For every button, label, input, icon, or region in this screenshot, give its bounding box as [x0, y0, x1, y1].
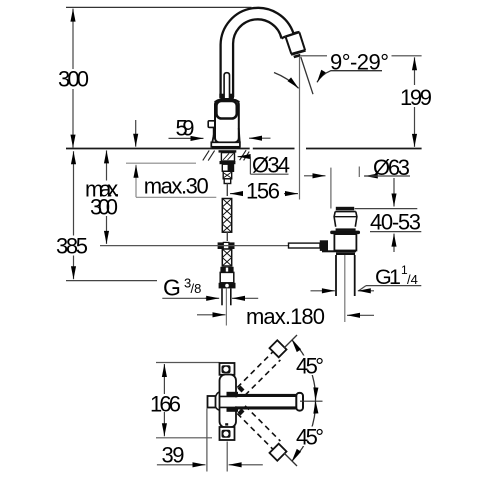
svg-text:40-53: 40-53	[370, 210, 421, 235]
39 extension lines	[207, 409, 227, 472]
angle arc left with arrow	[274, 73, 299, 89]
body shoulder	[215, 99, 239, 102]
lower arm end cap	[270, 444, 287, 461]
svg-text:Ø34: Ø34	[252, 153, 290, 178]
pop-up rod coupling	[218, 242, 235, 249]
max.30 extension line	[126, 162, 196, 164]
block under nut	[222, 164, 233, 171]
drain Ø63 extension lines	[331, 167, 359, 209]
deck line (mounting surface)	[66, 148, 422, 150]
lever handle	[208, 121, 216, 136]
svg-text:166: 166	[150, 391, 181, 416]
top extension line (300 reference at spout top)	[66, 6, 252, 8]
svg-text:39: 39	[162, 442, 185, 467]
hatched block	[223, 171, 232, 183]
svg-text:/4: /4	[407, 272, 418, 287]
hose nut	[220, 267, 233, 273]
40-53 underline	[370, 231, 421, 233]
leader Ø34 arrow	[238, 156, 251, 158]
dimension 199 vertical line with arrows	[414, 57, 416, 147]
deck hatching left of hole	[203, 150, 215, 160]
svg-text:199: 199	[400, 85, 432, 110]
upper 45 arc with arrows	[292, 340, 315, 400]
svg-text:385: 385	[56, 234, 88, 259]
G 3/8 arrows	[205, 297, 258, 299]
base plate bottom bar	[212, 147, 240, 149]
arm center line	[300, 400, 323, 402]
drain plug cap	[336, 207, 354, 211]
deck hatching right of hole	[240, 150, 250, 160]
G3/8 pipe	[222, 288, 231, 305]
label max. 300	[85, 177, 120, 220]
max.30 underline	[136, 196, 216, 198]
upper arm axis line	[284, 335, 297, 348]
horizontal pop-up rod	[100, 245, 288, 247]
drain body bottom bars	[322, 250, 356, 255]
mounting nut black bar	[220, 161, 236, 164]
supply hose with X hatch	[222, 249, 231, 266]
G1 1/4 leader diagonal	[359, 286, 366, 291]
dimension 166 line with arrows	[163, 364, 165, 436]
dimension 156 arrows	[230, 193, 298, 195]
joint blobs tube to body	[219, 94, 234, 99]
dimension 59 arrows	[169, 137, 271, 139]
166 extension lines	[156, 363, 220, 438]
supply axis line	[225, 288, 227, 325]
Ø63 underline	[364, 175, 410, 177]
connector block	[220, 272, 234, 282]
pop-up lift rod above body	[224, 73, 229, 99]
angle arc right with arrow	[317, 71, 331, 83]
drain washer	[330, 228, 360, 234]
label 45 lower	[294, 424, 327, 449]
G1 1/4 underline	[366, 285, 421, 287]
tick above bottom tab	[225, 423, 228, 425]
upper diagonal arm dashed	[237, 352, 280, 395]
bracket body	[220, 375, 237, 428]
upper arm end cap	[270, 340, 287, 357]
svg-text:max.180: max.180	[246, 304, 325, 329]
svg-text:/8: /8	[191, 281, 202, 296]
spout head band	[285, 32, 299, 37]
svg-text:45°: 45°	[296, 424, 324, 449]
svg-text:156: 156	[246, 179, 280, 204]
extension line spout outlet height	[301, 55, 422, 57]
drain body	[334, 234, 356, 250]
drain tailpipe	[336, 255, 355, 296]
G1 1/4 arrows	[311, 290, 375, 292]
shank block with hatch	[221, 153, 234, 161]
svg-text:9°-29°: 9°-29°	[330, 49, 389, 74]
threaded supply pipe with X hatch	[222, 199, 231, 233]
dimension max.300 line with arrows	[106, 150, 108, 244]
svg-text:59: 59	[176, 115, 195, 140]
handle face window	[216, 101, 236, 119]
svg-text:max.30: max.30	[144, 174, 209, 199]
arm end cap	[296, 393, 303, 411]
gooseneck spout outer+inner arc	[221, 8, 300, 97]
40-53 lower arrow	[393, 234, 395, 252]
pop-up rod outlined section	[289, 243, 321, 248]
body flare sides	[212, 128, 239, 142]
connector flange bar	[219, 283, 236, 289]
dimension 300 vertical line with arrows	[72, 9, 74, 148]
shank flange washer under deck	[219, 150, 237, 152]
label G 3/8	[163, 274, 201, 300]
dimension 385 line with arrows	[73, 151, 75, 279]
base plate	[211, 142, 240, 147]
arm passage through hub	[220, 396, 239, 407]
Ø34 underline	[250, 173, 288, 175]
label G1 1/4	[375, 263, 418, 289]
svg-text:300: 300	[58, 67, 89, 92]
40-53 upper arrow	[393, 178, 395, 207]
svg-text:300: 300	[90, 195, 118, 220]
faucet body outline	[215, 100, 239, 143]
lower arm axis line	[284, 453, 297, 466]
thin lift rod segment	[226, 184, 228, 197]
bracket top screw tab	[220, 363, 235, 375]
hub left protrusion	[208, 392, 220, 410]
leader Ø34 vertical	[249, 157, 251, 175]
tick below top tab	[225, 376, 228, 378]
aerator outlet	[293, 54, 301, 58]
svg-text:Ø63: Ø63	[373, 155, 410, 180]
dimension 39 arrows	[157, 464, 263, 466]
lower diagonal arm dashed	[237, 406, 280, 449]
dimension max.30 lower arrow	[135, 165, 137, 197]
dimension max.30 upper arrow	[135, 120, 137, 147]
lower 45 arc with arrows	[292, 401, 315, 461]
spout outlet vertical reference line	[299, 57, 301, 200]
label 45 upper	[294, 353, 327, 378]
40-53 extension line top	[355, 208, 418, 210]
G 3/8 underline	[162, 297, 213, 299]
extension line 385 bottom	[66, 280, 157, 282]
dimension max.180 arrows	[197, 314, 374, 317]
hub collars at arm joint	[227, 392, 239, 412]
drain flange	[334, 212, 357, 227]
svg-text:45°: 45°	[296, 353, 324, 378]
bracket bottom screw tab	[220, 427, 235, 440]
label 9-29 underline	[331, 70, 383, 72]
spout head	[286, 32, 306, 54]
rod segment to coupling	[226, 232, 228, 241]
drain axis line	[344, 255, 346, 322]
horizontal arm tube	[237, 394, 296, 410]
Ø63 arrows	[304, 175, 372, 177]
drain lever knob	[320, 240, 328, 251]
spray angle slant line	[301, 57, 313, 94]
svg-text:G: G	[163, 274, 181, 300]
